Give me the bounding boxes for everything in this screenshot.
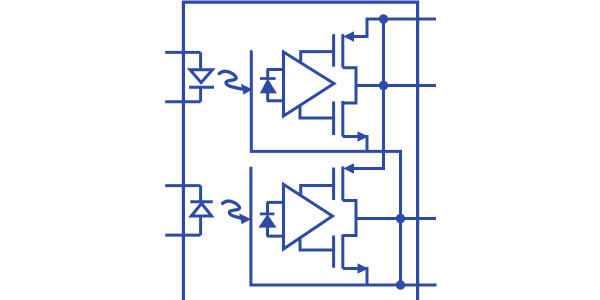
junction dot pin6 rail [396, 214, 405, 223]
Q2 source wire down to common line [343, 137, 367, 152]
junction dot pin8 rail [379, 14, 388, 23]
junction dot pin5 rail [396, 280, 405, 289]
junction dot pin7 rail [379, 81, 388, 90]
light arrow (ch2 squiggle) [223, 201, 251, 224]
amplifier U2 triangle [284, 184, 333, 249]
Q4 gate bar [332, 236, 335, 268]
pin 1 stub (ch1 anode) [165, 51, 200, 54]
LED D1 cathode bar [189, 86, 214, 89]
U1 bottom output wire to Q2 gate [300, 105, 334, 118]
photodiode PD2 triangle (filled, points up) [260, 215, 275, 227]
ch2 mid tap to pin 6 [356, 217, 436, 220]
Q1 gate bar [332, 34, 335, 66]
LED1 anode lead [199, 52, 202, 69]
ch1 mid tap to pin 7 [356, 84, 436, 87]
Q4 source wire down to pin 5 line [343, 269, 367, 286]
Q1-Q2 drain staircase [343, 68, 356, 103]
Q1 source wire to pin 8 [348, 19, 436, 37]
Q4 channel bar [341, 235, 344, 269]
U2 bottom output wire to Q4 gate [300, 238, 334, 250]
photodiode PD2 anode lead [266, 227, 269, 236]
Q3 source arrow [343, 163, 354, 173]
photodiode PD2 cathode bar [260, 212, 275, 215]
Q1 channel bar [341, 34, 344, 68]
ch1 receiver L-wire + common line + rail to ch2 pins [251, 50, 400, 285]
Q3 gate bar [332, 168, 335, 201]
LED2 cathode lead [199, 186, 202, 202]
Q3-Q4 drain staircase [343, 201, 356, 236]
LED D1 triangle (points down) [190, 70, 212, 83]
LED2 anode lead [199, 216, 202, 235]
Q2 source arrow [358, 131, 369, 141]
LED D2 cathode bar [190, 200, 212, 203]
rail from pin 8/7 down to Q3 source [348, 19, 384, 169]
U1 top output wire to Q1 gate [301, 52, 334, 63]
photodiode PD1 bracket top [267, 68, 284, 71]
U2 top output wire to Q3 gate [301, 186, 334, 196]
photodiode PD2 bracket bottom [267, 235, 284, 238]
ch2 receiver L-wire + bottom line to pin 5 [251, 167, 437, 285]
light arrow (ch1 squiggle) [219, 71, 252, 94]
pin 3 stub (ch2) [165, 234, 200, 237]
photodiode PD1 anode lead [266, 93, 269, 101]
LED D2 triangle (points up) [191, 203, 211, 216]
Q1 source arrow [343, 31, 354, 41]
amplifier U1 triangle [284, 52, 335, 116]
Q4 source arrow [358, 263, 369, 273]
photodiode PD1 triangle (filled, points up) [261, 80, 276, 93]
photodiode PD1 cathode bar [260, 77, 276, 80]
photodiode PD1 cathode lead [266, 70, 269, 80]
photodiode PD2 bracket top [267, 201, 284, 204]
Q3 channel bar [341, 167, 344, 201]
photodiode PD2 cathode lead [266, 202, 269, 214]
Q2 channel bar [341, 101, 344, 137]
Q2 gate bar [332, 102, 335, 136]
photodiode PD1 bracket bottom [267, 99, 284, 102]
LED1 cathode lead [199, 87, 202, 102]
pin 2 stub (ch1 cathode) [165, 100, 200, 103]
pin 4 stub (ch2) [165, 184, 200, 187]
package outline (open-bottom box) [183, 2, 417, 300]
